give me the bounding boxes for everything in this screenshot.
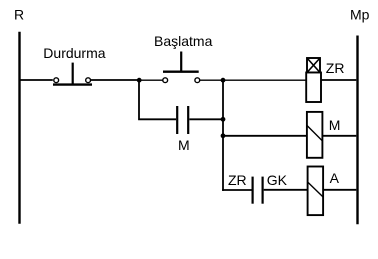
svg-text:GK: GK: [267, 172, 288, 188]
wire A coil to right rail: [323, 189, 356, 191]
pushbutton S1 Başlatma (NO start): [154, 33, 213, 83]
wire bus corner to ZR contact: [222, 189, 251, 191]
contact ZR / GK (NO): [228, 172, 288, 204]
node junction right (dot): [221, 78, 226, 83]
svg-text:Başlatma: Başlatma: [154, 33, 213, 49]
node R label: [14, 7, 24, 23]
wire branch down from left junction: [139, 80, 176, 119]
wire rail to stop button: [19, 79, 53, 81]
svg-text:ZR: ZR: [326, 60, 345, 76]
wire contact M to bus: [189, 118, 223, 120]
node dot M-coil feed on bus: [221, 133, 226, 138]
svg-text:A: A: [330, 170, 340, 186]
wire bus to M coil: [223, 135, 307, 137]
wire ZR coil to right rail: [321, 79, 356, 81]
wire junction to start button: [139, 79, 163, 81]
wire start button to ZR coil: [200, 79, 307, 81]
wire ZR contact to A coil: [264, 189, 308, 191]
node junction left (dot): [137, 78, 142, 83]
svg-text:Durdurma: Durdurma: [43, 45, 105, 61]
wire stop button to node: [91, 79, 139, 81]
svg-text:M: M: [178, 137, 190, 153]
pushbutton S0 Durdurma (NC stop): [43, 45, 105, 85]
wire M coil to right rail: [322, 135, 356, 137]
node Mp label: [350, 7, 370, 23]
svg-text:Mp: Mp: [350, 7, 370, 23]
svg-text:M: M: [329, 117, 341, 133]
svg-text:ZR: ZR: [228, 172, 247, 188]
wire vertical bus down: [222, 80, 224, 191]
coil M (contactor): [307, 112, 340, 158]
right rail Mp: [356, 36, 358, 225]
contact M (NO, seal-in): [177, 106, 189, 153]
coil A (relay): [308, 167, 340, 216]
left rail R: [18, 32, 20, 224]
svg-text:R: R: [14, 7, 24, 23]
node dot M-branch on bus: [221, 117, 226, 122]
coil ZR (timer relay with X box): [306, 58, 344, 102]
